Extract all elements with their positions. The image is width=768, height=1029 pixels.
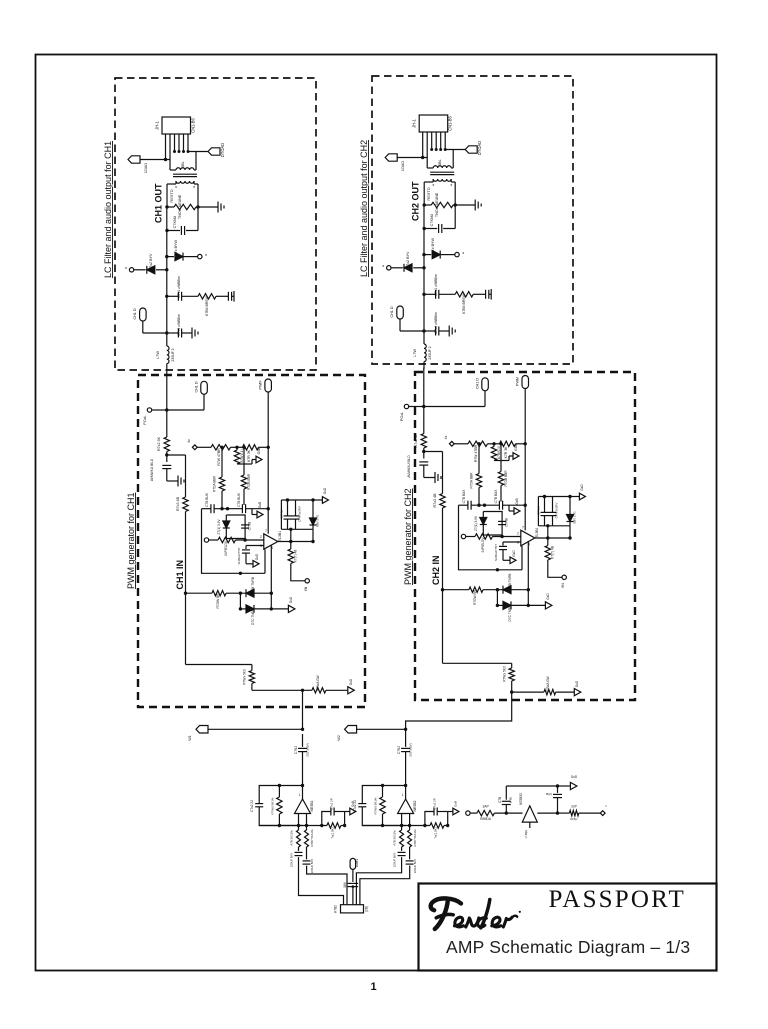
svg-text:(7B): (7B) <box>509 797 513 803</box>
zener loop box <box>459 505 498 570</box>
bottom rail <box>362 825 430 827</box>
svg-text:R7GW BR: R7GW BR <box>216 593 220 609</box>
op-amp output <box>278 541 313 543</box>
svg-text:R7x3 4B: R7x3 4B <box>176 496 180 511</box>
svg-text:C7NW: C7NW <box>280 509 284 518</box>
bottom rail <box>259 825 327 827</box>
row link verticals <box>239 593 241 609</box>
svg-text:6N: 6N <box>561 583 565 588</box>
PWM lead <box>524 389 526 444</box>
svg-text:R7x3 4B: R7x3 4B <box>433 493 437 508</box>
jog to CH-IN rail <box>167 454 186 456</box>
terminal circle IN1 <box>204 538 208 542</box>
capacitor C1NB <box>241 524 249 526</box>
connector tab W2 <box>345 726 357 734</box>
diode D27C <box>497 604 502 606</box>
resistor R110K <box>327 823 341 828</box>
svg-text:R7WA GW: R7WA GW <box>316 674 320 690</box>
svg-text:CH1 D: CH1 D <box>133 308 137 319</box>
wire W1 to bus <box>208 728 303 730</box>
svg-text:C7NB: C7NB <box>505 518 509 527</box>
capacitor C2B1 <box>409 847 411 859</box>
resistor rail row1 R1GW <box>184 592 187 595</box>
transformer T17 primary <box>169 160 171 171</box>
svg-text:C7x2 2P: C7x2 2P <box>330 798 334 809</box>
stage1 routing to connector <box>299 857 344 905</box>
svg-text:1DAD: 1DAD <box>143 163 148 174</box>
earth ground <box>217 202 219 213</box>
svg-text:C7x1 xWBBm: C7x1 xWBBm <box>434 274 438 296</box>
svg-text:POxL: POxL <box>143 415 147 424</box>
svg-text:PWM generator for CH2: PWM generator for CH2 <box>403 488 413 585</box>
op-amp pin3 network <box>246 545 264 547</box>
bypass cap loop <box>322 812 331 826</box>
svg-text:D7x BYW: D7x BYW <box>174 240 178 256</box>
svg-text:R7DB BBR: R7DB BBR <box>247 473 251 490</box>
svg-text:R7DA BBR: R7DA BBR <box>470 472 474 489</box>
capacitor C1x2 22 <box>255 803 263 806</box>
svg-text:CTKNU: CTKNU <box>173 215 177 228</box>
svg-text:C7N2: C7N2 <box>294 746 298 754</box>
bus exits box bottom <box>302 690 304 730</box>
connector PWM2 oval <box>522 376 529 389</box>
capacitor C1B1 <box>306 847 308 859</box>
zener Z171 <box>223 521 230 528</box>
feedback loop <box>404 784 407 787</box>
svg-text:2: 2 <box>517 532 519 536</box>
svg-text:B(2): B(2) <box>546 792 552 796</box>
resistor R3 1AP <box>477 810 494 815</box>
capacitor RC3 stage3 <box>557 786 559 793</box>
svg-text:25JTW(V): 25JTW(V) <box>409 743 413 756</box>
svg-text:CN1-B6: CN1-B6 <box>191 117 196 132</box>
svg-text:C7x4 xWBBm: C7x4 xWBBm <box>434 312 438 334</box>
gnd triangle a <box>251 460 253 465</box>
svg-text:JH-1: JH-1 <box>412 118 417 127</box>
svg-text:C7B: C7B <box>498 797 502 803</box>
connector tab DTOAD2 <box>465 146 477 153</box>
connector J2-1 pins <box>422 132 424 158</box>
rail down to bottom row <box>185 593 187 664</box>
inductor L270 <box>424 344 426 362</box>
svg-text:GxB: GxB <box>257 447 261 454</box>
svg-text:GxD: GxD <box>571 775 578 779</box>
svg-text:GxD: GxD <box>289 596 293 603</box>
CH2 custom bottom routing <box>442 590 444 664</box>
capacitor C16V <box>352 869 354 882</box>
feedback row wire <box>459 504 468 506</box>
svg-text:LC Filter and audio output for: LC Filter and audio output for CH1 <box>103 141 113 278</box>
connector ACM2 <box>341 905 364 913</box>
svg-text:SUBxxCTNT: SUBxxCTNT <box>237 547 241 564</box>
secondary left rail <box>166 184 168 207</box>
gnd triangle c <box>503 559 510 561</box>
svg-text:CH2 IN: CH2 IN <box>431 555 441 585</box>
svg-text:W1: W1 <box>188 735 192 741</box>
feedback row wire <box>202 508 211 510</box>
terminal circle POx2 <box>404 404 408 408</box>
svg-text:OBL: OBL <box>438 159 442 166</box>
resistor K277 <box>547 538 549 546</box>
svg-text:GxB: GxB <box>258 502 262 508</box>
svg-text:L7W: L7W <box>155 351 160 359</box>
capacitor C2KNU bottom <box>424 228 437 230</box>
svg-text:7x(1.0K): 7x(1.0K) <box>434 827 438 838</box>
bus to PWM box <box>423 362 425 369</box>
svg-text:TL3B1: TL3B1 <box>535 527 539 537</box>
svg-text:*: * <box>432 184 434 190</box>
dashed box PWM CH1 <box>138 375 365 707</box>
resistor R1Wx vert <box>251 665 253 671</box>
svg-text:4x: 4x <box>444 435 448 439</box>
capacitor C1AVM electrolytic <box>162 464 171 466</box>
resistor R210K <box>430 823 444 828</box>
svg-text:GxB: GxB <box>515 498 519 504</box>
resistor R2B7 <box>409 826 411 831</box>
svg-text:C7x2 22: C7x2 22 <box>353 800 357 812</box>
diode D271 <box>422 253 425 256</box>
svg-text:R7B7 5K11%: R7B7 5K11% <box>310 829 314 846</box>
capacitor C2AVM electrolytic <box>419 461 428 463</box>
resistor R2Wx vert <box>511 663 513 668</box>
resistor K177 <box>290 542 292 550</box>
svg-text:230UF 2: 230UF 2 <box>171 348 175 361</box>
stage3 top wire <box>506 785 557 787</box>
svg-text:7: 7 <box>265 529 267 533</box>
PWM lead lower <box>524 444 526 531</box>
svg-text:JH-1: JH-1 <box>155 120 160 129</box>
resistor R1DB vertical <box>243 447 245 475</box>
gnd triangle stage <box>345 811 350 813</box>
op-amp output <box>535 537 570 539</box>
svg-text:K7R 3K: K7R 3K <box>247 449 251 462</box>
svg-text:C7B BUX: C7B BUX <box>237 492 241 507</box>
svg-text:220UF 5KV: 220UF 5KV <box>413 859 417 873</box>
svg-text:K7B4 BRSW: K7B4 BRSW <box>462 293 466 313</box>
svg-text:D7B TNRB: D7B TNRB <box>508 574 512 590</box>
svg-text:K7B4 BRSW: K7B4 BRSW <box>205 295 209 315</box>
jog to CH-IN rail <box>424 451 443 453</box>
svg-text:R7WA GW: R7WA GW <box>546 675 550 691</box>
gnd triangle stage3 <box>558 785 571 787</box>
svg-text:C7NW: C7NW <box>537 506 541 515</box>
svg-text:PWM: PWM <box>259 381 263 390</box>
svg-text:R7W 47BR: R7W 47BR <box>474 444 478 462</box>
dashed box PWM CH2 <box>415 372 635 700</box>
svg-text:D7C TNRB: D7C TNRB <box>508 605 512 621</box>
oval tab G2B1 <box>350 858 356 869</box>
capacitor C17B b <box>241 504 243 513</box>
connector J1-1 header <box>162 117 191 134</box>
svg-text:2: 2 <box>260 535 262 539</box>
svg-text:REXTD: REXTD <box>426 187 431 200</box>
svg-text:REXTD: REXTD <box>169 189 174 202</box>
earth ground pwm <box>177 476 179 487</box>
right cluster bottom wire <box>538 525 570 527</box>
earth ground 2 <box>448 326 450 337</box>
bypass cap loop <box>425 812 434 826</box>
capacitor C27B b <box>498 501 500 510</box>
capacitor C2x2 22 <box>358 803 366 806</box>
svg-text:NE5B2: NE5B2 <box>413 800 417 811</box>
svg-text:C7x4 xWBBm: C7x4 xWBBm <box>177 314 181 336</box>
svg-text:2xP: 2xP <box>571 805 577 809</box>
svg-text:1AP: 1AP <box>482 805 489 809</box>
svg-text:POxL: POxL <box>400 412 404 421</box>
svg-text:230UF 2: 230UF 2 <box>428 346 432 359</box>
svg-text:K7(7) 4B: K7(7) 4B <box>551 546 555 559</box>
op-amp bottom-right lead <box>527 542 529 590</box>
svg-text:K7R 3K: K7R 3K <box>504 446 508 459</box>
bus into PWM box <box>166 371 168 437</box>
terminal diamond 4x1 <box>192 445 197 450</box>
resistor R2WA <box>512 691 544 693</box>
svg-text:16V: 16V <box>343 881 347 888</box>
svg-text:R7B7 5K11%: R7B7 5K11% <box>413 829 417 846</box>
page border <box>36 55 717 971</box>
wire left header <box>140 159 170 161</box>
op-amp U17 TL3B1 <box>264 534 278 549</box>
transformer T17 secondary <box>176 181 194 183</box>
capacitor C1x4 <box>165 331 168 334</box>
svg-text:GxD: GxD <box>580 484 584 491</box>
resistor R1WA <box>312 688 326 693</box>
capacitor C1SUB <box>242 549 250 551</box>
svg-text:C7N2: C7N2 <box>397 746 401 754</box>
svg-text:AVMWXU BILD: AVMWXU BILD <box>407 455 411 478</box>
dashed box LC filter CH1 <box>115 78 316 370</box>
capacitor C2N2 on bus <box>405 734 407 747</box>
connector PWM1 oval <box>265 379 272 392</box>
resistor R273 on rail <box>440 494 445 509</box>
svg-text:GxD: GxD <box>512 550 516 557</box>
svg-text:C7N 3x3RV: C7N 3x3RV <box>555 503 559 519</box>
resistor rail row1 R2GW <box>441 588 444 591</box>
svg-text:24PIELDV: 24PIELDV <box>481 537 485 553</box>
resistor R172 on bus <box>164 437 169 452</box>
svg-text:R7GW BR: R7GW BR <box>473 589 477 605</box>
earth ground <box>474 200 476 211</box>
PWM lead <box>267 392 269 447</box>
capacitor C7B stage3 <box>505 786 507 800</box>
resistor R1DA vertical <box>221 447 223 477</box>
svg-text:D7x2 BYV: D7x2 BYV <box>149 253 153 270</box>
svg-text:DTOAD: DTOAD <box>220 143 225 157</box>
svg-text:6N: 6N <box>304 586 308 591</box>
oval lead <box>399 319 401 331</box>
capacitor C2NW pair <box>544 497 546 513</box>
svg-text:*: * <box>382 265 384 271</box>
gnd triangle b <box>508 505 510 511</box>
svg-text:DTOAD: DTOAD <box>477 141 482 155</box>
svg-text:R7W6 5K1%: R7W6 5K1% <box>374 797 378 814</box>
svg-text:L7W: L7W <box>412 349 417 357</box>
bottom row wire <box>252 689 312 691</box>
terminal diamond out3 <box>600 811 605 816</box>
right cluster top wire <box>290 529 292 541</box>
svg-text:*: * <box>193 186 195 192</box>
resistor R173 on rail <box>183 497 188 512</box>
op-amp pin3 network <box>503 541 521 543</box>
transformer T17 core <box>173 173 197 175</box>
transformer T27 core <box>430 171 454 173</box>
diode D17B <box>246 589 254 597</box>
op-amp U27 TL3B1 <box>521 530 535 546</box>
stage3 output <box>537 812 557 814</box>
svg-text:GxD: GxD <box>323 487 327 494</box>
row link verticals <box>496 590 498 606</box>
svg-text:1: 1 <box>370 981 376 993</box>
svg-text:CH2 OUT: CH2 OUT <box>411 181 421 221</box>
svg-text:7x(1.0K): 7x(1.0K) <box>331 827 335 838</box>
resistor A2B <box>401 826 403 831</box>
svg-text:G2B1: G2B1 <box>355 859 359 867</box>
svg-text:220UF 5KV: 220UF 5KV <box>290 853 294 867</box>
diode D17C <box>240 608 245 610</box>
resistor A1B <box>298 826 300 831</box>
svg-text:GxD: GxD <box>575 680 579 687</box>
terminal circle IN2 <box>461 534 465 538</box>
connector J2-1 header <box>419 115 448 132</box>
feedback loop <box>301 784 304 787</box>
svg-text:GxB: GxB <box>454 801 458 807</box>
resistor R1PIE <box>218 537 236 542</box>
svg-text:*: * <box>462 252 464 258</box>
diode D272 <box>422 266 425 269</box>
gnd triangle e <box>271 608 288 610</box>
op-amp U2 NE5B2 <box>405 786 407 800</box>
gnd triangle a <box>508 456 510 461</box>
gnd triangle c <box>246 563 253 565</box>
svg-text:NE5B32: NE5B32 <box>519 793 523 805</box>
connector tab TDAD1 <box>128 156 140 163</box>
svg-text:D7C TNRB: D7C TNRB <box>251 609 255 625</box>
connector tab TDAD2 <box>385 154 397 161</box>
svg-text:CTKNU: CTKNU <box>430 213 434 226</box>
svg-text:1: 1 <box>299 793 301 797</box>
resistor stage3 out <box>569 810 578 815</box>
wire to output tab <box>188 151 208 153</box>
resistor R2DB vertical <box>500 444 502 472</box>
resistor R1B7 <box>306 826 308 831</box>
svg-text:GxD: GxD <box>546 593 550 600</box>
capacitor C1KNU bottom <box>167 230 180 232</box>
wire to earth <box>455 204 475 206</box>
svg-text:CH1 IN: CH1 IN <box>175 560 185 590</box>
svg-text:SUBxxCTNT: SUBxxCTNT <box>494 544 498 561</box>
wire to output tab <box>445 149 465 151</box>
terminal circle in3 <box>466 811 470 815</box>
svg-text:AEUNE: AEUNE <box>435 192 439 205</box>
svg-text:AEUNE: AEUNE <box>178 194 182 207</box>
connector CH2 D oval (pwm) <box>482 378 489 391</box>
op-amp bottom-right lead <box>270 546 272 594</box>
svg-text:R7DA BBR: R7DA BBR <box>213 475 217 492</box>
svg-text:GxB: GxB <box>514 443 518 450</box>
svg-text:R7Wx 5K3: R7Wx 5K3 <box>243 669 247 685</box>
op-amp U3 NE5B32 <box>522 806 537 822</box>
wire W2 to bus <box>357 728 406 730</box>
right cluster bottom wire <box>281 528 313 530</box>
svg-text:CH1 D: CH1 D <box>390 306 394 317</box>
resistor R2W6 <box>381 784 384 787</box>
diode D27B <box>503 586 511 594</box>
svg-text:RB9DA: RB9DA <box>480 817 492 821</box>
resistor R17B hanging <box>236 447 238 450</box>
svg-text:Z7(1) 3.9V: Z7(1) 3.9V <box>217 519 221 535</box>
secondary right rail <box>454 182 456 229</box>
svg-text:CN1-B6: CN1-B6 <box>448 115 453 130</box>
svg-text:R7W6 5K1%: R7W6 5K1% <box>271 797 275 814</box>
capacitor C1x1 <box>165 295 168 298</box>
secondary left rail <box>423 182 425 205</box>
svg-text:C7x2 2P: C7x2 2P <box>433 798 437 809</box>
svg-text:220UF 5KV: 220UF 5KV <box>310 859 314 873</box>
svg-text:K7(7) 4B: K7(7) 4B <box>294 550 298 563</box>
svg-text:TNOV: TNOV <box>178 208 182 219</box>
title block <box>419 884 717 971</box>
diode D172 <box>165 268 168 271</box>
svg-text:220UF 5KV: 220UF 5KV <box>393 853 397 867</box>
svg-text:*: * <box>175 186 177 192</box>
resistor R27W <box>468 441 488 446</box>
svg-text:R(3)x: R(3)x <box>570 817 578 821</box>
capacitor C17B a <box>210 504 212 513</box>
transformer T27 secondary <box>433 179 451 181</box>
svg-text:CH1 D: CH1 D <box>195 381 199 392</box>
svg-text:AVMWXU BILD: AVMWXU BILD <box>150 458 154 481</box>
dashed box LC filter CH2 <box>372 76 573 364</box>
bus to PWM box <box>166 364 168 371</box>
capacitor C2NB <box>498 520 506 522</box>
svg-text:LC Filter and audio output for: LC Filter and audio output for CH2 <box>359 140 369 277</box>
svg-text:*: * <box>450 184 452 190</box>
svg-text:4x: 4x <box>187 439 191 443</box>
svg-text:R7DB BBR: R7DB BBR <box>504 470 508 487</box>
gnd triangle e <box>528 604 545 606</box>
capacitor C2x1 <box>422 293 425 296</box>
capacitor C1NW pair <box>287 500 289 516</box>
main bus <box>166 207 168 346</box>
terminal diamond 4x2 <box>449 441 454 446</box>
terminal circle POx1 <box>147 408 151 412</box>
resistor R2PIE <box>475 534 493 539</box>
connector tab DTOAD1 <box>208 148 220 155</box>
gnd triangle CH2 bottom <box>574 689 581 696</box>
connector CH1 D oval <box>140 308 147 321</box>
capacitor C1N2 on bus <box>302 734 304 747</box>
svg-text:C7B BUX: C7B BUX <box>205 492 209 507</box>
svg-text:R7x2 3K: R7x2 3K <box>157 436 161 451</box>
op-amp input leads <box>401 814 403 826</box>
diode D171 <box>165 255 168 258</box>
svg-text:CH1 D: CH1 D <box>476 378 480 389</box>
svg-text:C7B BUX: C7B BUX <box>462 489 466 504</box>
svg-text:*: * <box>125 267 127 273</box>
capacitor to ground <box>485 290 487 299</box>
wire to earth <box>198 206 218 208</box>
resistor K17R <box>243 445 259 450</box>
resistor R2DA vertical <box>478 444 480 474</box>
Fender logo <box>431 898 521 929</box>
zener loop inner <box>226 515 245 539</box>
svg-text:5BV 27G: 5BV 27G <box>573 511 577 524</box>
earth ground pwm <box>434 472 436 483</box>
svg-text:C7x2 22: C7x2 22 <box>250 800 254 812</box>
op-amp U1 NE5B2 <box>302 786 304 800</box>
PWM lead lower <box>267 447 269 534</box>
svg-text:A7B2: A7B2 <box>334 905 338 913</box>
